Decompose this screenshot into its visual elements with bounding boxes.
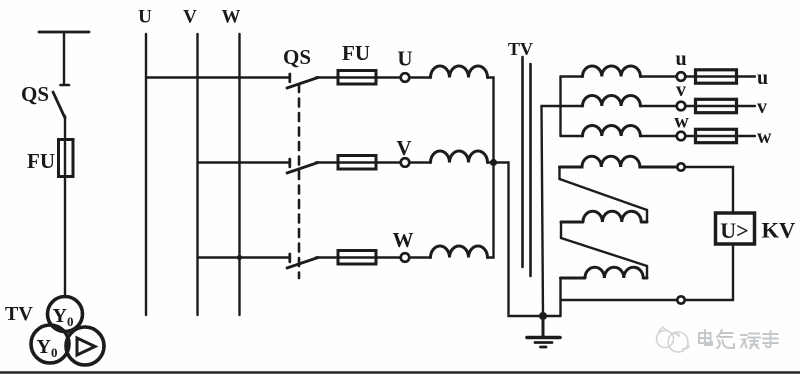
fuse row 2	[338, 156, 376, 170]
disconnector QS contact tick	[61, 84, 70, 87]
wire terminal to relay	[686, 167, 733, 214]
wire phase V tap	[198, 161, 289, 163]
wire diagonal 2 to winding c	[646, 266, 648, 278]
wire fuse v out	[737, 105, 756, 107]
svg-text:KV: KV	[762, 218, 796, 243]
secondary winding v	[583, 96, 641, 106]
wire fuse w out	[737, 135, 756, 137]
terminal row 3	[401, 253, 410, 262]
secondary winding u	[583, 66, 641, 77]
junction primary star point	[490, 159, 497, 166]
svg-text:U>: U>	[720, 218, 748, 243]
voltage transformer TV winding 3 circle	[66, 327, 104, 365]
svg-text:v: v	[757, 96, 767, 118]
wire QS to FU row 2	[316, 161, 400, 163]
wire secondary neutral drop	[542, 106, 544, 316]
watermark text shu	[763, 331, 778, 348]
bus U vertical	[145, 34, 147, 315]
fuse u with through-line	[696, 70, 737, 83]
svg-text:U: U	[138, 7, 152, 28]
svg-text:FU: FU	[27, 149, 55, 173]
svg-text:W: W	[222, 7, 241, 28]
relay U> box	[716, 213, 755, 244]
linkage dashed	[298, 84, 301, 278]
wire terminal v to fuse	[686, 105, 696, 107]
wire terminal u to fuse	[686, 75, 696, 77]
primary winding W	[431, 246, 488, 258]
wire secondary w lead	[561, 135, 583, 137]
primary winding U	[431, 66, 488, 78]
voltage transformer TV winding 1 circle	[48, 297, 83, 332]
wire terminal to coil row 1	[409, 76, 430, 78]
ground	[527, 316, 560, 347]
switch QS pole 3 contact	[288, 254, 291, 262]
wire terminal to coil row 3	[409, 256, 430, 258]
svg-text:TV: TV	[508, 39, 533, 59]
busbar (single-line)	[39, 31, 89, 34]
junction bus W / W tap	[237, 255, 242, 260]
svg-text:QS: QS	[21, 82, 49, 106]
wire open-delta c drop to earth	[559, 278, 561, 316]
wire open-delta a drop	[558, 167, 560, 179]
wire diagonal 1 to winding b	[646, 210, 648, 222]
disconnector QS blade	[53, 92, 65, 118]
wire primary star W	[488, 163, 494, 258]
svg-text:w: w	[674, 111, 689, 133]
watermark text qi	[717, 330, 734, 348]
svg-text:u: u	[757, 67, 768, 89]
watermark text dian	[699, 330, 712, 345]
wire star point to earth bus	[494, 163, 561, 317]
wire phase W tap	[198, 256, 289, 258]
bus W vertical	[238, 34, 240, 315]
open-delta winding a	[560, 156, 677, 167]
wire primary star U	[488, 78, 494, 163]
wire open-delta diagonal 2	[561, 238, 647, 266]
svg-text:FU: FU	[342, 41, 370, 65]
watermark icon	[657, 327, 690, 352]
wire terminal w to fuse	[686, 135, 696, 137]
svg-text:U: U	[397, 47, 412, 71]
switch QS pole 1 blade	[287, 78, 318, 89]
secondary winding w	[583, 126, 641, 137]
wire coil w to terminal	[640, 135, 676, 137]
fuse v with through-line	[696, 99, 737, 112]
terminal u	[677, 72, 686, 81]
svg-text:TV: TV	[5, 303, 33, 325]
switch QS pole 2 blade	[287, 163, 318, 174]
open-delta winding c	[561, 267, 648, 278]
wire QS to FU	[64, 116, 66, 140]
wire primary star V	[488, 161, 494, 163]
wire secondary v lead	[542, 105, 583, 107]
fuse FU (single-line)	[59, 140, 74, 177]
svg-text:V: V	[183, 7, 197, 28]
fuse w with through-line	[696, 129, 737, 142]
svg-text:u: u	[675, 48, 686, 70]
svg-text:Y0: Y0	[37, 336, 58, 360]
wire secondary star bracket	[559, 77, 561, 137]
terminal v	[677, 102, 686, 111]
wire coil v to terminal	[640, 105, 676, 107]
terminal row 1	[401, 73, 410, 82]
wire through FU to TV	[64, 140, 66, 297]
wire bottom terminal lead	[561, 299, 677, 301]
bottom frame line	[0, 371, 800, 373]
bus V vertical	[196, 34, 198, 315]
svg-text:V: V	[396, 136, 411, 160]
terminal w	[677, 132, 686, 141]
wire busbar to QS	[63, 32, 65, 85]
wire secondary u lead	[561, 75, 583, 77]
wire terminal to coil row 2	[409, 161, 430, 163]
fuse row 3	[338, 251, 376, 265]
switch QS pole 3 blade	[287, 258, 318, 269]
terminal open-delta top	[677, 163, 684, 170]
wire coil u to terminal	[640, 75, 676, 77]
switch QS pole 1 contact	[288, 74, 291, 82]
primary winding V	[431, 151, 488, 163]
svg-text:Y0: Y0	[53, 305, 74, 329]
open-delta symbol winding 3	[77, 338, 95, 355]
svg-text:w: w	[757, 126, 772, 148]
wire QS to FU row 1	[316, 76, 400, 78]
core line 2	[529, 64, 532, 276]
svg-text:W: W	[393, 228, 414, 252]
switch QS pole 2 contact	[288, 159, 291, 167]
terminal open-delta bottom	[677, 296, 684, 303]
wire relay to bottom terminal	[686, 244, 733, 301]
svg-text:v: v	[676, 79, 686, 101]
terminal row 2	[401, 158, 410, 167]
svg-text:QS: QS	[283, 45, 311, 69]
wire open-delta b drop	[560, 222, 562, 238]
watermark text du	[741, 334, 760, 349]
junction earth	[539, 312, 547, 320]
wire fuse u out	[737, 75, 756, 77]
voltage transformer TV winding 2 circle	[31, 325, 69, 363]
wire phase U tap	[146, 76, 289, 78]
wire QS to FU row 3	[316, 256, 400, 258]
core line 1	[521, 57, 524, 267]
wire open-delta diagonal 1	[560, 179, 648, 210]
fuse row 1	[338, 71, 376, 85]
open-delta winding b	[561, 211, 647, 222]
